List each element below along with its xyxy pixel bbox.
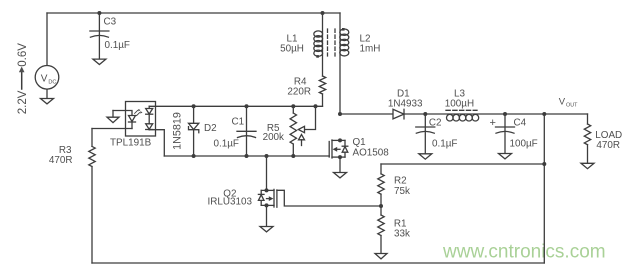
wire R1 to ground (380, 236, 382, 254)
label LOAD (595, 130, 622, 141)
ground under C3 (93, 59, 106, 64)
value 0.1uF of C3 (105, 40, 130, 51)
junction Q2 drain pin (265, 188, 269, 192)
value 470R of LOAD (596, 140, 620, 151)
junction VOUT feedback (542, 162, 546, 166)
value 1N4933 of D1 (388, 99, 423, 110)
LED inside TPL191B (129, 116, 136, 129)
voltage source VDC (35, 66, 59, 90)
resistor R1 (378, 215, 384, 236)
label D1 (397, 89, 410, 100)
ground under LOAD (581, 163, 594, 168)
inductor L2 (340, 29, 349, 56)
svg-text:1N5819: 1N5819 (172, 112, 184, 150)
value 470R of R3 (49, 155, 73, 166)
value 100uH of L3 (445, 99, 474, 110)
ground under R1 (375, 254, 387, 259)
label D2 (204, 123, 217, 134)
label Q1 (353, 137, 367, 148)
resistor R3 (89, 129, 95, 167)
label C2 (429, 118, 442, 129)
wire R2 top (380, 164, 382, 174)
wire VDC bottom stem (46, 89, 48, 99)
wire TPL output bottom (149, 130, 164, 156)
junction C1 top (245, 104, 249, 108)
wire R5 wiper (305, 106, 316, 129)
transistor Q1 AO1508 (329, 140, 348, 158)
ground under C2 (419, 154, 432, 159)
resistor R2 (378, 174, 384, 194)
LED light arrows (135, 109, 143, 116)
svg-text:0.1µF: 0.1µF (105, 40, 130, 51)
resistor LOAD (584, 124, 590, 145)
junction top rail C3 (97, 11, 101, 15)
ground under Q1 (334, 173, 347, 178)
resistor R4 (319, 76, 325, 94)
ground under Q2 (260, 227, 273, 232)
capacitor C4 (496, 127, 515, 133)
svg-text:200k: 200k (263, 132, 284, 143)
wire LED anode (113, 111, 132, 116)
wire feedback top rail (149, 105, 322, 107)
wire Q2 gate (277, 190, 381, 206)
label Q2 (223, 189, 236, 200)
junction C1 bottom (245, 154, 249, 158)
pot adjust arrow (299, 135, 305, 146)
label R1 (394, 219, 407, 230)
svg-text:0.6V: 0.6V (17, 43, 29, 67)
phase dot L2 (342, 28, 345, 31)
svg-text:100µF: 100µF (510, 139, 538, 150)
wire R2 to R1 (380, 194, 382, 215)
junction VOUT (542, 112, 546, 116)
wire LOAD to ground (587, 145, 589, 164)
label L2 (360, 34, 371, 45)
svg-text:C1: C1 (232, 117, 245, 128)
junction Q2 source pin (265, 203, 269, 207)
wire bottom sense (92, 262, 544, 264)
wire R3 to LED (92, 128, 132, 130)
label C4 (514, 118, 527, 129)
photodiode stack wire (148, 106, 150, 129)
wire Q1 source to ground (339, 157, 341, 172)
svg-text:C3: C3 (104, 17, 117, 28)
wire R5 column (292, 106, 294, 156)
wire feedback bottom rail (164, 155, 329, 157)
svg-text:75k: 75k (394, 186, 410, 197)
optocoupler U1 TPL191B box (126, 102, 156, 137)
label C1 (232, 117, 245, 128)
value 75k of R2 (394, 186, 410, 197)
junction Q1 drain (338, 138, 342, 142)
label L1 (287, 34, 298, 45)
value 0.1uF of C1 (214, 139, 239, 150)
wire power rail (340, 113, 588, 115)
svg-text:1mH: 1mH (360, 44, 381, 55)
inductor L3 (446, 110, 479, 121)
label R5 (267, 123, 280, 134)
value IRLU3103 of Q2 (208, 197, 253, 208)
svg-text:V: V (559, 97, 566, 108)
junction divider (379, 204, 383, 208)
input range label 2.2V to 0.6V (17, 43, 29, 114)
junction wiper top (314, 104, 318, 108)
wire VDC to top rail (46, 13, 48, 66)
diode D2 1N5819 (189, 123, 199, 132)
svg-text:C4: C4 (514, 118, 527, 129)
value 200k of R5 (263, 132, 284, 143)
capacitor C2 (416, 127, 435, 133)
junction Q1 source (338, 155, 342, 159)
transistor Q2 IRLU3103 (258, 189, 277, 207)
label R4 (294, 77, 307, 88)
junction R5 bottom (291, 154, 295, 158)
phase dot L1 (316, 55, 319, 58)
junction top rail L1 (321, 11, 325, 15)
wire to LOAD (587, 114, 589, 124)
value 1mH of L2 (360, 44, 381, 55)
junction D2 top (192, 104, 196, 108)
label R2 (394, 176, 407, 187)
wire VOUT feedback down (543, 114, 545, 263)
junction C2 top (423, 112, 427, 116)
wire feedback to R2 (381, 163, 544, 165)
svg-text:V: V (41, 73, 48, 84)
svg-text:TPL191B: TPL191B (110, 138, 152, 149)
svg-text:IRLU3103: IRLU3103 (208, 197, 253, 208)
wire L1 column (322, 13, 324, 76)
value 220R of R4 (287, 87, 311, 98)
capacitor C1 (237, 131, 256, 137)
diode D1 1N4933 (393, 109, 404, 119)
potentiometer R5 (290, 113, 296, 144)
ground under VDC (41, 99, 54, 104)
capacitor C3 stem (98, 13, 100, 59)
wiper arrow (298, 126, 304, 132)
ground under C4 (499, 154, 512, 159)
wire Q2 drain (266, 156, 268, 190)
wire D2 column (193, 106, 195, 156)
svg-text:DC: DC (48, 80, 56, 86)
wire L2 column (339, 13, 341, 114)
wire top rail (47, 12, 340, 14)
value 33k of R1 (394, 229, 410, 240)
junction Q1 drain rail (338, 112, 342, 116)
svg-text:2.2V: 2.2V (17, 90, 29, 114)
label L3 (454, 89, 465, 100)
wire C4 column (504, 114, 506, 154)
node VOUT label (559, 97, 578, 109)
svg-text:OUT: OUT (566, 103, 578, 109)
svg-text:220R: 220R (287, 87, 311, 98)
svg-text:0.1µF: 0.1µF (214, 139, 239, 150)
photodiode D_a (146, 109, 153, 115)
svg-text:www.cntronics.com: www.cntronics.com (442, 242, 606, 263)
svg-text:33k: 33k (394, 229, 410, 240)
svg-text:+: + (490, 117, 496, 129)
svg-text:470R: 470R (49, 155, 73, 166)
photodiode D_b (146, 124, 153, 130)
junction Q2 top rail (265, 154, 269, 158)
wire R3 down left side (91, 167, 93, 264)
svg-text:0.1µF: 0.1µF (432, 139, 457, 150)
watermark www.cntronics.com (442, 242, 606, 263)
svg-text:470R: 470R (596, 140, 620, 151)
transformer core (328, 29, 336, 56)
ground at LED anode (107, 111, 119, 123)
wire Q2 source to ground (266, 205, 268, 226)
wire R4 to feedback rail (322, 94, 324, 106)
label TPL191B (110, 138, 152, 149)
capacitor C3 (90, 31, 109, 37)
svg-text:50µH: 50µH (280, 44, 304, 55)
svg-text:D2: D2 (204, 123, 217, 134)
label C3 (104, 17, 117, 28)
wire C2 column (424, 114, 426, 154)
value 0.1uF of C2 (432, 139, 457, 150)
inductor L1 (314, 31, 323, 56)
plus sign of C4 (490, 117, 496, 129)
value AO1508 of Q1 (353, 148, 390, 159)
junction R5 top (291, 104, 295, 108)
value 50uH of L1 (280, 44, 304, 55)
value 1N5819 of D2 (172, 112, 184, 150)
label R3 (59, 145, 72, 156)
svg-text:100µH: 100µH (445, 99, 474, 110)
wire C1 column (246, 106, 248, 156)
junction C4 top (503, 112, 507, 116)
svg-text:AO1508: AO1508 (353, 148, 390, 159)
value 100uF of C4 (510, 139, 538, 150)
svg-text:C2: C2 (429, 118, 442, 129)
svg-text:R2: R2 (394, 176, 407, 187)
svg-text:1N4933: 1N4933 (388, 99, 423, 110)
junction D2 bottom (192, 154, 196, 158)
svg-text:Q1: Q1 (353, 137, 367, 148)
